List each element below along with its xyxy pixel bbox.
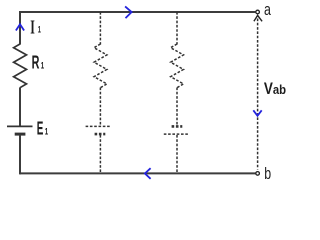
dashed branch 1 battery short plate: [95, 133, 106, 136]
wire left vertical lower segment: [19, 135, 21, 174]
svg-text:1: 1: [41, 60, 45, 71]
dashed branch 1 resistor: [94, 44, 107, 88]
dashed branch 1 wire middle: [99, 88, 101, 126]
terminal b open circle: [256, 172, 260, 176]
dashed branch 2 battery short plate (top): [172, 125, 183, 128]
arrow current (blue, left) on bottom wire: [145, 168, 151, 179]
battery E1 short negative plate: [15, 133, 26, 136]
Vab dashed reference line from b up to a: [257, 19, 259, 170]
wire bottom horizontal from left corner to terminal b: [20, 172, 255, 174]
svg-text:1: 1: [38, 25, 42, 36]
arrow I1 (blue, up) on left wire: [16, 24, 24, 30]
svg-text:a: a: [264, 0, 271, 19]
svg-text:1: 1: [45, 126, 49, 137]
svg-text:I: I: [30, 17, 35, 39]
wire left vertical upper segment: [19, 11, 21, 45]
battery E1 long positive plate: [7, 125, 33, 127]
svg-text:ab: ab: [273, 82, 286, 97]
svg-text:b: b: [264, 164, 271, 183]
wire top horizontal from left corner to terminal a: [20, 11, 255, 13]
arrow current (blue, right) on top wire: [125, 6, 132, 18]
terminal a open circle: [256, 10, 260, 14]
dashed branch 2 wire middle: [176, 88, 178, 126]
dashed branch 1 vertical wire upper: [99, 12, 101, 45]
svg-text:R: R: [32, 52, 40, 72]
arrow current (blue, down) on right dashed line: [253, 110, 261, 116]
dashed branch 2 resistor: [171, 44, 184, 88]
dashed branch 1 battery long plate: [86, 125, 112, 127]
dashed branch 2 battery long plate (bottom): [164, 133, 190, 135]
dashed branch 1 wire lower: [99, 135, 101, 173]
wire left vertical between R1 and E1: [19, 88, 21, 126]
dashed branch 2 vertical wire upper: [176, 12, 178, 45]
resistor R1: [14, 44, 27, 88]
dashed branch 2 wire lower: [176, 135, 178, 173]
Vab reference arrowhead (black, up, under terminal a): [254, 15, 262, 21]
svg-text:E: E: [37, 118, 44, 138]
